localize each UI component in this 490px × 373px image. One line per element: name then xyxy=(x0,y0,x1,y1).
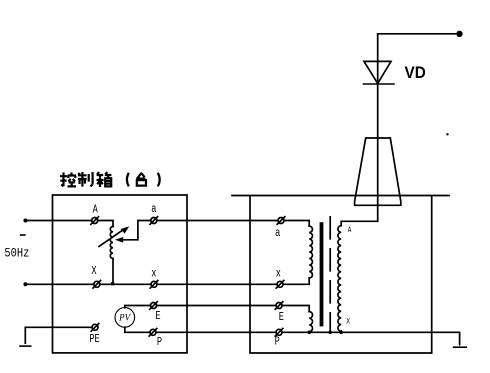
svg-text:P: P xyxy=(275,335,280,349)
svg-text:a: a xyxy=(275,227,280,241)
transformer secondary winding xyxy=(338,226,341,331)
svg-text:A: A xyxy=(93,203,99,217)
svg-text:A: A xyxy=(348,226,352,235)
wire: A to variac top xyxy=(98,221,113,227)
AC dash symbol xyxy=(20,234,26,236)
wire: PV bottom to P xyxy=(125,327,150,332)
svg-text:x: x xyxy=(276,267,281,281)
node: AC input dot 2 xyxy=(23,282,27,286)
svg-text:X: X xyxy=(346,318,350,327)
terminal PE xyxy=(91,324,99,332)
svg-text:x: x xyxy=(151,267,156,281)
variac arrow (adjustment) xyxy=(99,230,124,247)
wire: row E between boxes xyxy=(157,305,277,307)
wire: variac bottom to X row xyxy=(112,259,114,285)
node: measuring winding to P row xyxy=(307,331,311,335)
terminal E (control box) xyxy=(150,302,158,310)
（ xyxy=(127,173,129,187)
wire: primary coil bottom to x row xyxy=(283,278,309,284)
terminal a (transformer) xyxy=(277,217,285,225)
wire: row a between boxes xyxy=(157,220,278,222)
wire: a to primary coil top xyxy=(284,221,309,227)
variac wiper tap to terminal a xyxy=(123,221,151,240)
wire: secondary top to HV lead xyxy=(341,221,378,225)
wire: row P between boxes xyxy=(156,331,276,333)
terminal P (transformer) xyxy=(275,329,283,337)
svg-text:50Hz: 50Hz xyxy=(4,245,29,260)
svg-text:a: a xyxy=(151,203,156,217)
diode VD xyxy=(364,61,391,83)
terminal X xyxy=(93,281,101,289)
） xyxy=(158,173,160,187)
svg-text:PE: PE xyxy=(89,333,99,347)
台 xyxy=(136,173,146,186)
wire: secondary bottom to P row xyxy=(340,331,342,332)
svg-text:VD: VD xyxy=(405,63,426,82)
wire: AC input phase to terminal A xyxy=(25,220,91,222)
ground (right, transformer tank) xyxy=(454,346,467,348)
wire: PV top to E xyxy=(125,306,151,308)
terminal P (control box) xyxy=(149,329,157,337)
svg-text:P: P xyxy=(157,336,162,350)
variac T1 coil xyxy=(110,227,113,259)
terminal x (control box) xyxy=(150,281,158,289)
control box (控制箱) outline xyxy=(53,195,188,353)
wire: AC input neutral to terminal X xyxy=(25,283,93,285)
transformer core bar xyxy=(320,222,324,326)
node: shield to P row xyxy=(328,331,332,335)
svg-text:E: E xyxy=(155,310,160,324)
transformer shield (dashed) xyxy=(329,217,331,332)
wire: X row inside box xyxy=(100,283,151,285)
node: output terminal dot xyxy=(456,31,462,37)
node: secondary X to P row xyxy=(339,331,343,335)
wire: P row to right ground xyxy=(282,332,460,344)
transformer primary winding xyxy=(309,226,312,278)
wire: top output xyxy=(378,33,460,35)
terminal x (transformer) xyxy=(276,281,284,289)
控 xyxy=(60,173,67,187)
svg-text:X: X xyxy=(91,265,97,279)
voltmeter PV xyxy=(115,308,135,328)
transformer measuring winding xyxy=(309,312,312,332)
箱 xyxy=(97,172,112,177)
HV lead vertical wire xyxy=(377,34,379,222)
terminal a (control box) xyxy=(150,217,158,225)
terminal E (transformer) xyxy=(275,302,283,310)
制 xyxy=(78,172,87,187)
svg-text:PV: PV xyxy=(118,313,131,323)
terminal A xyxy=(91,217,99,225)
node: AC input dot 1 xyxy=(23,219,27,223)
title 控制箱（台） custom glyphs xyxy=(60,172,160,187)
bushing xyxy=(355,138,401,205)
stray dot xyxy=(446,133,448,135)
wire: PE to left ground xyxy=(25,327,92,343)
wire: E to measuring coil top xyxy=(282,306,309,312)
node: variac-X junction xyxy=(111,282,114,285)
svg-text:E: E xyxy=(279,311,284,325)
ground (left, control box PE) xyxy=(20,345,31,347)
transformer box outline xyxy=(232,196,449,354)
wire: row x between boxes xyxy=(157,283,277,285)
